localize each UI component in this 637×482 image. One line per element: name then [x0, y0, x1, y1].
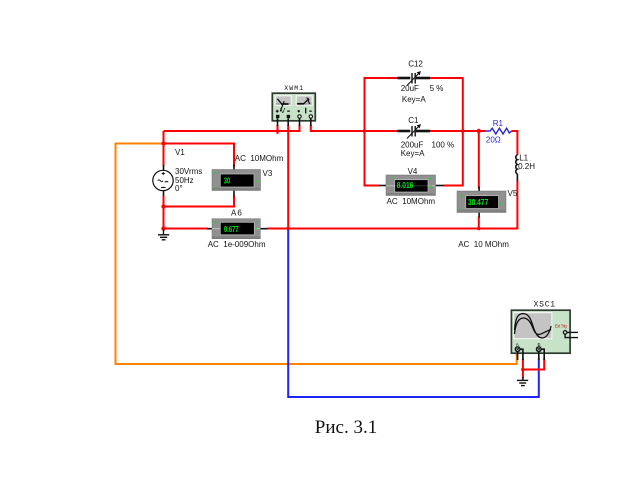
junction scope ground link — [521, 368, 525, 372]
wire: left cap vertical down to V4 left — [365, 131, 380, 186]
junction C12 branch left on top line — [363, 129, 367, 133]
svg-text:A: A — [516, 342, 519, 347]
svg-text:+: + — [214, 220, 218, 226]
junction node V1+ / orange / V3 top — [161, 141, 165, 145]
svg-text:0.677: 0.677 — [224, 225, 239, 234]
svg-text:V4: V4 — [408, 167, 418, 176]
XSC1 terminal B — [536, 347, 541, 352]
svg-text:AC 10MOhm: AC 10MOhm — [387, 197, 436, 206]
svg-text:200uF: 200uF — [401, 140, 424, 149]
wire: XWM1 pin I+ stub — [299, 125, 301, 132]
wire: C12 right to right vertical — [430, 78, 463, 130]
ammeter A6 — [207, 209, 267, 249]
wire: XWM1 pin V- vertical down to rail — [287, 125, 289, 229]
wire: scope ground link A to B minus — [523, 359, 544, 370]
wire: C12 branch top — [365, 78, 399, 130]
resistor R1 — [485, 119, 512, 145]
wire: bottom rail right section — [267, 228, 479, 230]
svg-text:AC 10 MOhm: AC 10 MOhm — [458, 240, 509, 249]
svg-text:R1: R1 — [493, 119, 504, 128]
wire: V1 top lead — [163, 131, 165, 166]
wire: XWM1 pin V+ stub — [277, 125, 279, 134]
svg-text:+: + — [214, 171, 218, 177]
XWM1 pin I- — [309, 115, 312, 118]
wire: red segment V1 top to V3 top — [164, 144, 235, 167]
wire: orange net V1+ to scope A — [116, 144, 517, 365]
svg-text:+: + — [429, 177, 433, 183]
svg-text:0°: 0° — [175, 184, 183, 193]
wire: V5 top tap — [478, 131, 480, 189]
svg-text:38.477: 38.477 — [468, 198, 488, 207]
junction C12 branch right on top line — [461, 129, 465, 133]
wire: V3 bottom to V1 bottom — [164, 196, 235, 207]
wire: blue net rail to scope B — [288, 229, 539, 398]
svg-text:XSC1: XSC1 — [534, 301, 556, 310]
svg-text:-: - — [460, 206, 462, 212]
junction XWM1 V+ pin on top line — [276, 129, 280, 133]
XWM1 pin V- — [287, 115, 290, 118]
junction V5 top tap on top line — [477, 129, 481, 133]
wire: red top line C1 right to R1 — [430, 130, 486, 132]
wire: bottom rail left section ground to A6 — [164, 228, 208, 230]
wire: V5 bottom to rail — [478, 217, 480, 229]
svg-text:-: - — [255, 220, 257, 226]
svg-text:-: - — [214, 185, 216, 191]
wire: V1 bottom lead down to ground corner — [163, 196, 165, 230]
junction blue tap on bottom rail — [286, 227, 290, 231]
wire: L1 bottom to rail corner — [479, 181, 518, 229]
svg-text:A6: A6 — [231, 209, 243, 218]
voltmeter V3 — [212, 154, 284, 196]
svg-text:8.016: 8.016 — [397, 181, 414, 190]
svg-text:V: V — [280, 106, 285, 115]
ground GND1 near V1 — [158, 229, 169, 240]
XSC1 terminal A — [515, 347, 520, 352]
XSC1 ext trig terminal — [563, 331, 567, 335]
wire: right cap vertical down to V4 right — [444, 131, 463, 186]
source V1 — [153, 148, 202, 196]
wire: scope A minus lead to ground — [522, 359, 524, 379]
ground GND2 near scope — [517, 377, 528, 386]
svg-text:100 %: 100 % — [432, 140, 455, 149]
XWM1 pin I+ — [298, 115, 301, 118]
svg-text:V3: V3 — [263, 169, 273, 178]
svg-text:AC 10MOhm: AC 10MOhm — [235, 154, 284, 163]
capacitor C12 — [398, 60, 444, 104]
wattmeter XWM1 — [272, 85, 315, 126]
svg-text:-: - — [392, 176, 394, 182]
voltmeter V5 — [457, 187, 518, 250]
svg-text:+: + — [460, 194, 464, 200]
wire: red top line V1+ to XWM1 I+ — [164, 130, 300, 132]
inductor L1 — [516, 154, 535, 181]
capacitor C1 — [398, 116, 455, 158]
wire: R1 right corner down to L1 — [512, 131, 518, 155]
svg-text:XWM1: XWM1 — [284, 85, 304, 92]
svg-text:Рис. 3.1: Рис. 3.1 — [315, 417, 377, 438]
junction node V1- / V3 bottom — [161, 204, 165, 208]
svg-text:^: ^ — [255, 228, 258, 234]
svg-text:30: 30 — [224, 176, 231, 185]
svg-text:0.2H: 0.2H — [518, 162, 535, 171]
XWM1 pin V+ — [276, 115, 279, 118]
svg-text:v: v — [255, 179, 258, 185]
svg-text:Ext Trig: Ext Trig — [555, 324, 568, 329]
svg-text:Key=A: Key=A — [402, 95, 426, 104]
oscilloscope XSC1 — [511, 301, 578, 360]
voltmeter V4 — [379, 167, 444, 206]
svg-text:AC 1e-009Ohm: AC 1e-009Ohm — [208, 240, 266, 249]
svg-text:C1: C1 — [408, 116, 419, 125]
svg-text:V5: V5 — [508, 189, 518, 198]
svg-text:5 %: 5 % — [430, 84, 444, 93]
junction ground node on bottom rail — [161, 226, 165, 230]
wire: XWM1 pin I- stub — [310, 125, 312, 132]
svg-text:v: v — [499, 200, 502, 206]
svg-text:20Ω: 20Ω — [486, 135, 501, 144]
svg-text:v: v — [429, 184, 432, 190]
svg-text:B: B — [538, 342, 541, 347]
svg-text:C12: C12 — [408, 60, 423, 69]
svg-text:V1: V1 — [175, 148, 185, 157]
svg-text:20uF: 20uF — [401, 84, 419, 93]
svg-text:Key=A: Key=A — [401, 149, 425, 158]
wire: red top line XWM1 I- to C1 left — [311, 130, 398, 132]
junction V5 bottom on bottom rail — [477, 227, 481, 231]
